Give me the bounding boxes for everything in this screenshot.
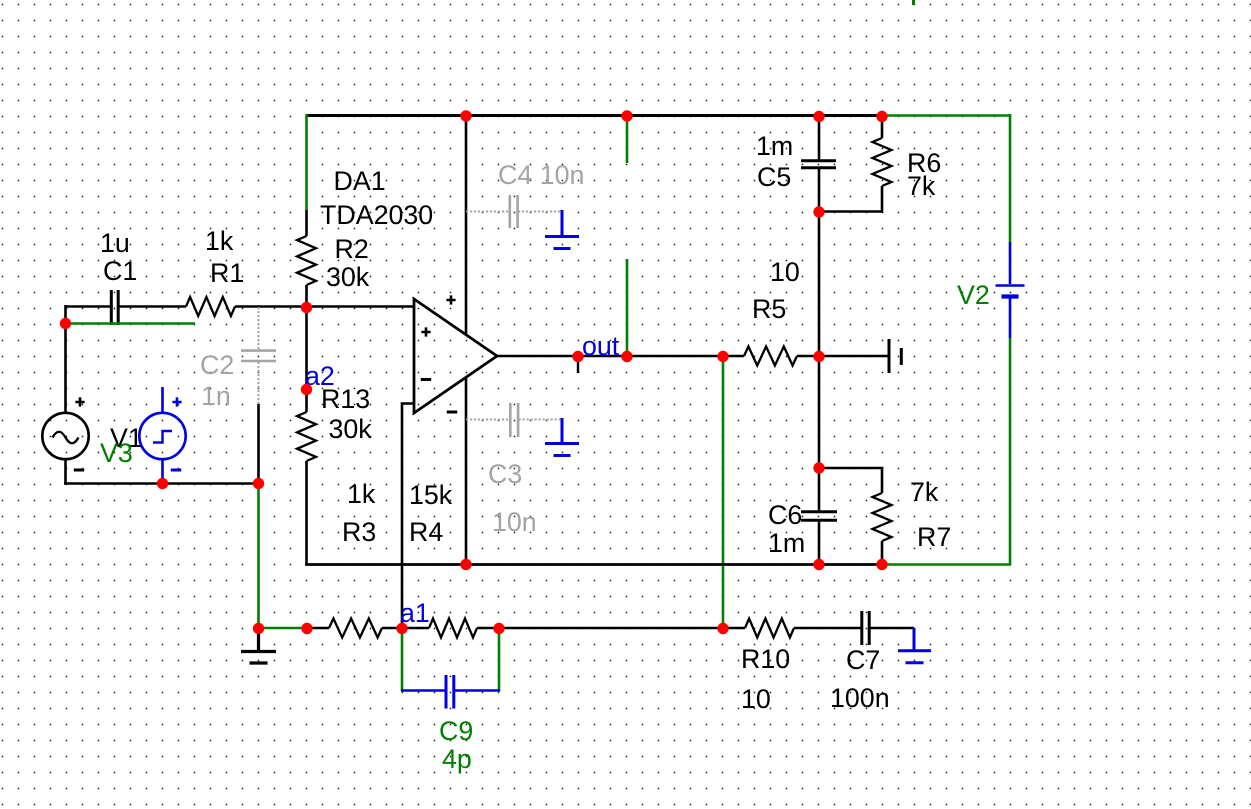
svg-text:C4 10n: C4 10n [498,160,584,190]
wire sources bottom rail [64,482,259,485]
node C5 / R6 junction [813,206,824,217]
resistor R10 10 [745,619,794,638]
wire green tick at top edge [912,0,915,5]
wire green vertical segment from top rail [626,114,629,163]
resistor R4 15k [429,619,477,638]
node R3 left [301,623,312,634]
wire green vertical to ground node [257,483,260,629]
svg-text:4p: 4p [442,744,472,774]
capacitor C4 10n (disabled, gray) [510,195,518,228]
wire node down to R13 [305,307,308,412]
svg-text:R10: R10 [741,644,790,674]
wire V1 top pin (blue) [161,387,164,413]
svg-text:1n: 1n [201,381,231,411]
wire C2 bottom lead (gray dashed) [258,362,260,404]
op-amp negative supply pin - label [447,411,457,414]
wire green a1 down to C9 [401,628,404,691]
wire R2 top vertical (green) from rail [305,114,308,210]
svg-text:C6: C6 [768,500,802,530]
svg-text:C1: C1 [103,256,137,286]
wire C6 bottom lead [818,521,821,565]
wire input left to C1 [65,305,111,308]
svg-text:1u: 1u [100,228,130,258]
op-amp U1 DA1 TDA2030 triangle [414,299,497,413]
wire C4 left lead (gray dashed) [466,211,509,213]
wire top rail right segment (green) to V2 [881,114,1011,117]
wire C9 right lead (blue) [454,689,500,692]
wire R3 left lead [307,627,329,630]
V1 plus sign [172,397,181,406]
wire C4 right lead (gray dashed) [518,211,562,213]
wire R2 bottom lead to input node [305,285,308,309]
node ground junction [253,623,264,634]
node C6 / R7 junction [813,462,824,473]
wire R7 bottom lead [881,541,884,565]
wire C2 top lead (gray dashed) [258,307,260,349]
svg-text:7k: 7k [907,171,936,201]
node feedback / R10 [717,623,728,634]
node output column / R5 [813,351,824,362]
svg-text:R5: R5 [752,294,786,324]
svg-text:V3: V3 [100,438,133,468]
wire op-amp output [497,355,744,358]
svg-text:C9: C9 [439,716,473,746]
wire op-amp V+ supply pin from top rail [465,114,468,335]
svg-text:30k: 30k [329,414,373,444]
svg-text:out: out [582,331,620,361]
node top rail R6 [876,111,887,122]
wire op-amp inverting input lead [402,404,414,629]
wire C5 top lead [818,115,821,160]
resistor R5 10 [744,347,797,366]
wire R4 right lead [477,627,499,630]
svg-text:100n: 100n [830,683,890,713]
node bottom rail / R7 [876,559,887,570]
svg-text:C2: C2 [200,350,234,380]
wire C1 to R1 [119,305,187,308]
op-amp inverting input - label [421,378,431,381]
wire R13 bottom lead to bottom rail [305,461,308,564]
wire C5 bottom lead down through node [818,168,821,356]
svg-text:10: 10 [770,257,800,287]
node top rail / V+ pin [460,110,471,121]
svg-text:R7: R7 [917,522,951,552]
svg-text:C3: C3 [488,459,522,489]
wire C3 right lead (gray dashed) [519,419,563,421]
capacitor C5 1m [801,161,836,168]
ground (blue) at C3 [545,418,579,456]
node top rail green vertical [621,110,632,121]
V3 minus sign [74,469,84,472]
svg-text:15k: 15k [409,480,453,510]
capacitor C3 10n (disabled, gray) [510,403,518,437]
node bottom rail / C6 [813,559,824,570]
capacitor C1 1u [111,290,118,325]
svg-text:7k: 7k [910,477,939,507]
wire R7 top lead from C6 node [819,468,882,493]
svg-text:1m: 1m [756,131,793,161]
wire left vertical down to V3 source [64,305,67,413]
svg-text:C5: C5 [757,162,791,192]
svg-text:1k: 1k [205,226,234,256]
open terminal symbol at R5 right [889,339,901,373]
svg-text:30k: 30k [326,262,370,292]
wire R3 right lead to a1 [382,627,402,630]
svg-text:10n: 10n [492,507,537,537]
V1 minus sign [171,469,181,472]
wire out label stub [577,358,579,373]
capacitor C2 1n (disabled, gray) [241,351,276,361]
op-amp non-inverting input + label [421,327,430,336]
node a1 [396,623,407,634]
wire green stub under C1 [65,322,195,325]
wire op-amp V- supply pin to bottom rail [465,377,468,564]
wire V1 bottom pin (blue) [161,459,164,484]
wire R5 to open terminal [797,355,889,358]
svg-text:R13: R13 [321,384,370,414]
wire R1 to node [235,305,307,308]
battery V2 (blue) [1009,242,1012,338]
node V1 bottom junction [157,478,168,489]
wire C7 right lead [870,627,915,630]
node input left junction [60,318,71,329]
source V1 (pulse source symbol, blue) [139,413,185,459]
op-amp positive supply pin + label [446,295,455,304]
wire bottom rail right segment (green) [882,563,1011,566]
svg-text:C7: C7 [846,645,880,675]
svg-text:1m: 1m [768,528,805,558]
svg-text:10: 10 [741,684,771,714]
node output / green vertical [621,351,632,362]
wire green R4-node down to C9 [498,628,501,691]
svg-text:TDA2030: TDA2030 [320,200,433,230]
resistor R7 7k [873,493,892,541]
wire bottom supply rail (black) [307,563,884,565]
wire C2 to source rail [257,404,260,484]
ground (blue) at C7 [898,628,931,663]
capacitor C9 4p (blue) [446,675,454,709]
capacitor C7 100n [862,611,869,645]
wire R10 to C7 [794,627,861,630]
wire node to op-amp + input [307,305,415,308]
svg-text:R2: R2 [335,234,369,264]
svg-text:R1: R1 [210,258,244,288]
node bottom rail / V- pin [460,559,471,570]
wire R6 top lead [881,114,884,138]
wire V2 bottom green vertical [1009,338,1012,565]
wire R10 left lead [723,627,745,630]
wire V2 top green vertical [1009,114,1012,242]
ground (blue) at C4 [545,210,579,249]
wire C3 left lead (gray dashed) [466,419,509,421]
node a2 [301,384,312,395]
svg-text:R3: R3 [342,517,376,547]
resistor R6 7k [873,138,892,186]
source V3 (sine source symbol) [42,413,88,459]
wire green feedback vertical to bottom node [722,356,725,629]
resistor R13 30k [297,412,316,461]
wire top supply rail (black) [306,114,882,117]
wire R2 top lead [305,210,308,236]
node top rail C5 [813,111,824,122]
V3 plus sign [75,397,84,406]
capacitor C6 1m [801,512,837,521]
resistor R1 1k [186,297,235,316]
resistor R3 1k [329,619,382,638]
node C2 bottom junction [253,478,264,489]
ground at lower-left node [241,628,276,663]
svg-text:V2: V2 [957,280,990,310]
svg-text:DA1: DA1 [334,166,386,196]
wire R4 left lead [402,627,429,630]
node output / feedback vertical [717,351,728,362]
wire C5-C6 column [818,356,821,511]
wire R4 node to R10 node [499,627,723,630]
svg-text:R4: R4 [409,517,443,547]
wire green vertical segment to output [626,259,629,356]
node out label [572,351,583,362]
wire green ground node to R3 (green) [259,627,308,630]
node R4 right / C9 branch [493,623,504,634]
wire R6 bottom lead to C5 node [819,186,882,212]
node op-amp + input junction [301,302,312,313]
resistor R2 30k [297,236,316,285]
svg-text:1k: 1k [347,479,376,509]
wire V3 bottom lead [64,459,67,485]
wire C9 left lead (blue) [401,689,446,692]
